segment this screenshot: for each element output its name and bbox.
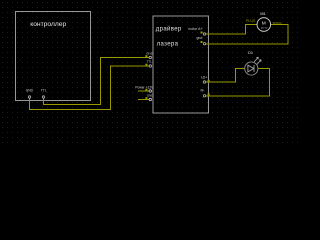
wire motor A+ to M1 plus xyxy=(206,25,257,35)
svg-text:M1: M1 xyxy=(260,11,266,16)
svg-text:D1: D1 xyxy=(248,51,253,55)
driver pin Power +12V number xyxy=(145,89,147,91)
driver pin GND (left) circle xyxy=(149,56,151,58)
wire LD+ to D1 anode xyxy=(206,69,245,83)
svg-text:PLUS: PLUS xyxy=(246,19,256,23)
svg-text:gnd: gnd xyxy=(196,36,202,40)
driver U2 box xyxy=(153,16,209,113)
laser diode D1 circle xyxy=(245,62,258,75)
svg-text:DYN: DYN xyxy=(261,26,267,30)
svg-text:GND: GND xyxy=(26,88,34,92)
svg-text:LD+: LD+ xyxy=(201,75,207,79)
wire TTL net (controller TTL to driver GND pin) xyxy=(44,58,150,105)
driver pin Power +12V circle xyxy=(149,90,151,92)
driver pin M- circle xyxy=(203,95,205,97)
pin line Power +12V stub xyxy=(138,90,150,92)
driver pin LD+ number xyxy=(208,80,210,82)
driver pin GND2 circle xyxy=(149,98,151,100)
svg-text:лазера: лазера xyxy=(157,42,179,48)
driver pin TTL (left) circle xyxy=(149,65,151,67)
svg-text:TTL: TTL xyxy=(41,88,47,92)
driver pin M- number xyxy=(208,93,210,95)
controller pin TTL circle xyxy=(42,96,44,98)
driver pin gnd circle xyxy=(203,43,205,45)
svg-text:контроллер: контроллер xyxy=(30,21,66,28)
svg-text:Power +12V: Power +12V xyxy=(135,86,154,90)
driver pin GND2 number xyxy=(145,97,147,99)
driver pin LD+ circle xyxy=(203,81,205,83)
wire D1 cathode to M- pin xyxy=(206,69,270,97)
svg-text:GND: GND xyxy=(146,51,154,55)
laser diode D1 emission arrow 1 xyxy=(254,57,258,62)
controller U1 box xyxy=(16,12,91,101)
driver pin gnd number xyxy=(201,41,203,43)
svg-text:драйвер: драйвер xyxy=(156,26,182,33)
driver pin motor A+ number xyxy=(201,32,203,34)
laser diode D1 emission arrow 2 xyxy=(257,60,261,65)
controller pin GND circle xyxy=(28,96,30,98)
svg-text:GND: GND xyxy=(147,94,155,98)
pin line GND2 stub xyxy=(138,99,150,101)
laser diode D1 triangle xyxy=(248,65,254,72)
wire GND net (controller GND to driver TTL pin) xyxy=(30,66,150,110)
driver pin GND (left) number xyxy=(145,55,147,57)
laser diode D1 cathode bar xyxy=(253,65,255,72)
wire M1 minus to gnd pin xyxy=(206,25,288,45)
driver pin motor A+ circle xyxy=(203,33,205,35)
svg-text:TTL: TTL xyxy=(147,59,153,63)
svg-text:MINUS: MINUS xyxy=(273,21,282,25)
svg-text:motor A+: motor A+ xyxy=(188,27,202,31)
motor M1 circle xyxy=(257,18,271,32)
driver pin TTL (left) number xyxy=(145,64,147,66)
